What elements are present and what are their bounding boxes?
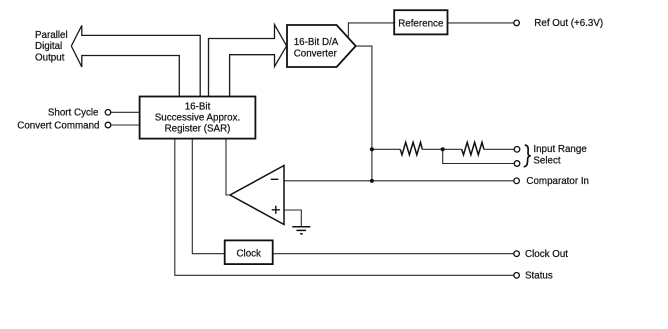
ground — [292, 227, 310, 234]
wire: Clock block to Clock Out terminal — [273, 253, 514, 255]
terminal: Convert Command — [105, 122, 111, 128]
svg-text:Clock Out: Clock Out — [525, 249, 568, 260]
terminal: Ref Out — [514, 20, 520, 26]
wire: SAR to Clock block — [192, 139, 224, 254]
wire: R2 to Input Range terminal — [484, 148, 514, 150]
block arrow: bus from SAR to D/A converter (lower half) — [230, 46, 287, 97]
wire: comparator output up to SAR — [226, 139, 230, 195]
wire: R1 to node A — [422, 148, 442, 150]
svg-text:Convert Command: Convert Command — [17, 120, 99, 131]
svg-text:Comparator In: Comparator In — [526, 176, 589, 187]
comparator U5 — [230, 166, 284, 225]
brace: input range select pair — [524, 145, 531, 167]
svg-text:16-Bit: 16-Bit — [185, 101, 211, 112]
block arrow: parallel digital output bus (lower half) — [71, 46, 179, 97]
terminal: Short Cycle — [105, 110, 111, 116]
label: Parallel Digital Output — [35, 30, 68, 64]
resistor R1 — [400, 142, 422, 155]
terminal: Status — [514, 273, 520, 279]
wire: D/A converter to Reference block — [348, 23, 394, 37]
wire: D/A line to resistor R1 — [372, 148, 400, 150]
svg-text:16-Bit D/A: 16-Bit D/A — [294, 37, 339, 48]
svg-text:Input Range: Input Range — [533, 144, 587, 155]
wire: D/A output down to resistor network and comparator line — [356, 46, 372, 181]
wire: node A to resistor R2 — [443, 148, 462, 150]
svg-text:Clock: Clock — [236, 248, 261, 259]
wire: node A down to Select terminal — [443, 149, 515, 163]
svg-text:Register (SAR): Register (SAR) — [165, 124, 231, 135]
block U4: Clock — [225, 240, 273, 264]
junction: D/A line on comparator input line — [370, 179, 374, 183]
svg-text:Select: Select — [533, 155, 561, 166]
terminal: Input Range Select upper — [514, 147, 520, 153]
block U1: 16-Bit Successive Approx. Register (SAR) — [140, 97, 256, 139]
block U3: Reference — [394, 10, 447, 34]
svg-text:Output: Output — [35, 52, 65, 63]
terminal: Input Range Select lower — [514, 161, 520, 167]
junction: D/A line and R1 branch — [370, 147, 374, 151]
wire: comparator non-inverting input to ground — [284, 210, 301, 227]
svg-text:Successive Approx.: Successive Approx. — [155, 113, 241, 124]
block arrow: parallel digital output bus (upper half) — [71, 25, 200, 96]
wire: Convert Command terminal to SAR — [111, 124, 140, 126]
wire: comparator inverting input to Comparator In terminal — [284, 180, 514, 182]
terminal: Clock Out — [514, 251, 520, 257]
svg-text:Ref Out (+6.3V): Ref Out (+6.3V) — [534, 18, 603, 29]
block arrow: bus from SAR to D/A converter (upper half) — [209, 25, 287, 97]
terminal: Comparator In — [514, 178, 520, 184]
svg-text:Short Cycle: Short Cycle — [48, 108, 99, 119]
svg-text:Converter: Converter — [294, 48, 338, 59]
junction: node A between R1 and R2 — [441, 147, 445, 151]
svg-text:Parallel: Parallel — [35, 30, 68, 41]
svg-text:Digital: Digital — [35, 41, 62, 52]
svg-text:Reference: Reference — [398, 19, 444, 30]
block U2: 16-Bit D/A Converter — [287, 25, 356, 67]
wire: SAR to Status terminal — [175, 139, 514, 276]
wire: Short Cycle terminal to SAR — [111, 111, 140, 113]
svg-text:Status: Status — [525, 271, 553, 282]
resistor R2 — [462, 142, 484, 155]
wire: Reference block to Ref Out terminal — [448, 22, 514, 24]
